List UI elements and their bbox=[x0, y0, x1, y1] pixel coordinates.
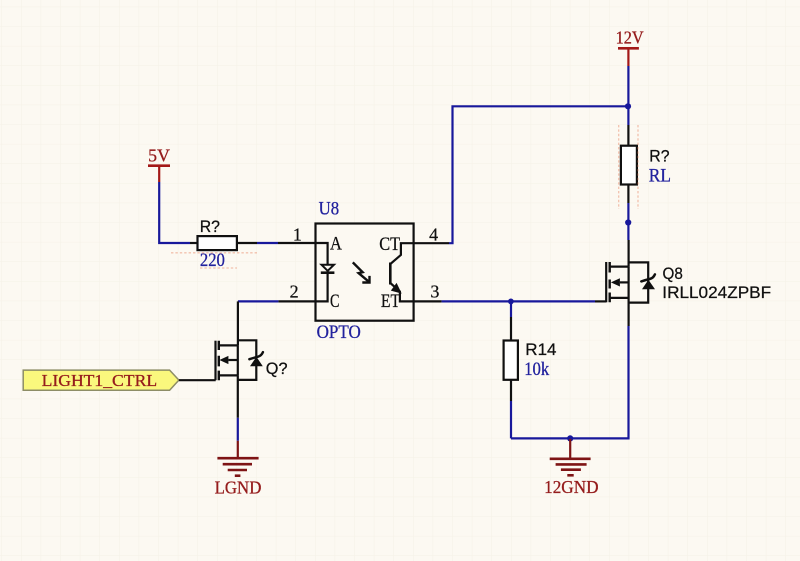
opto light arrow bbox=[353, 262, 370, 282]
compile squiggle under R220 bbox=[171, 252, 259, 254]
svg-text:R14: R14 bbox=[525, 340, 556, 359]
junction below RL bbox=[625, 219, 631, 225]
power port 5V bbox=[148, 145, 170, 182]
body arrow bbox=[611, 278, 620, 286]
wire R14 bottom bbox=[510, 401, 512, 438]
svg-text:IRLL024ZPBF: IRLL024ZPBF bbox=[662, 283, 771, 302]
wire 12V down bbox=[627, 66, 629, 125]
ground 12GND bbox=[544, 439, 599, 497]
Q? source wire bbox=[237, 375, 239, 417]
junction R14 top bbox=[508, 299, 514, 305]
wire Q? drain vertical bbox=[237, 301, 239, 345]
body diode triangle bbox=[250, 357, 263, 367]
opto pin 2 bbox=[278, 300, 315, 302]
power port 12V bbox=[616, 28, 644, 67]
body arrow bbox=[219, 356, 228, 364]
wire R14 top bbox=[510, 301, 512, 317]
net label LIGHT1_CTRL bbox=[23, 370, 179, 390]
wire 5V to R220 bbox=[159, 182, 190, 243]
svg-text:OPTO: OPTO bbox=[317, 323, 361, 343]
svg-text:2: 2 bbox=[290, 282, 299, 302]
wire bottom rail to Q8 source bbox=[511, 326, 629, 438]
compile squiggle right of RL bbox=[637, 125, 639, 209]
wire opto pin2 to Q? drain bbox=[238, 300, 279, 302]
svg-text:R?: R? bbox=[649, 147, 669, 166]
wire R220 right pin bbox=[237, 242, 257, 244]
Q8 gate pin bbox=[595, 300, 606, 302]
svg-text:U8: U8 bbox=[319, 199, 340, 219]
resistor R? RL bbox=[621, 146, 671, 187]
junction 12GND bbox=[567, 435, 573, 441]
wire R220 to opto pin1 bbox=[257, 242, 278, 244]
svg-text:CT: CT bbox=[379, 235, 400, 255]
ground LGND bbox=[215, 441, 262, 498]
svg-text:5V: 5V bbox=[148, 145, 170, 165]
R14 bottom pin bbox=[510, 380, 512, 401]
drain lead bbox=[219, 344, 238, 346]
svg-text:4: 4 bbox=[429, 224, 438, 244]
compile squiggle left of RL bbox=[618, 125, 620, 209]
internal vertical bbox=[237, 345, 239, 375]
body diode triangle bbox=[642, 280, 655, 290]
wire R220 left pin bbox=[190, 242, 198, 244]
transistor Q? bbox=[216, 340, 288, 380]
R14 top pin bbox=[510, 317, 512, 341]
svg-text:ET: ET bbox=[381, 292, 400, 312]
gate bar bbox=[214, 341, 216, 381]
svg-text:A: A bbox=[330, 234, 342, 254]
resistor R? 220 bbox=[198, 217, 237, 271]
wire RL to Q8 drain bbox=[627, 203, 629, 240]
svg-text:LGND: LGND bbox=[215, 478, 262, 498]
svg-text:3: 3 bbox=[430, 282, 439, 302]
svg-text:12V: 12V bbox=[616, 28, 644, 48]
svg-text:10k: 10k bbox=[524, 360, 550, 380]
source lead bbox=[219, 374, 238, 376]
internal vertical drain-to-source bbox=[627, 267, 629, 298]
svg-text:220: 220 bbox=[200, 251, 225, 271]
Q8 drain pin bbox=[627, 240, 629, 267]
opto LED branch bbox=[316, 234, 343, 312]
opto pin 1 bbox=[278, 242, 316, 244]
channel segments bbox=[609, 262, 611, 302]
RL top pin bbox=[627, 125, 629, 146]
opto pin 3 bbox=[414, 300, 442, 302]
svg-text:Q8: Q8 bbox=[663, 264, 683, 283]
wire opto pin4 up to 12V rail bbox=[449, 106, 628, 243]
body diode branch bbox=[629, 262, 649, 302]
svg-text:C: C bbox=[330, 292, 340, 312]
body diode branch bbox=[238, 340, 256, 380]
compile squiggle under 220 value bbox=[200, 267, 237, 269]
svg-text:12GND: 12GND bbox=[544, 477, 599, 497]
wire opto pin3 to Q8 gate / R14 bbox=[442, 300, 595, 302]
svg-text:1: 1 bbox=[293, 224, 302, 244]
junction 12V rail bbox=[625, 103, 631, 109]
zener cathode curve bbox=[641, 274, 655, 281]
wire flag to Q? gate bbox=[179, 379, 216, 381]
RL bottom pin bbox=[627, 185, 629, 204]
svg-text:LIGHT1_CTRL: LIGHT1_CTRL bbox=[42, 371, 158, 390]
drain lead bbox=[610, 266, 629, 268]
source lead bbox=[610, 297, 629, 299]
opto U8 body bbox=[316, 199, 414, 343]
svg-text:RL: RL bbox=[649, 167, 671, 187]
gate bar bbox=[605, 262, 607, 302]
resistor R14 bbox=[504, 340, 557, 380]
opto pin 4 bbox=[414, 242, 449, 244]
channel segments bbox=[218, 341, 220, 381]
Q8 source pin bbox=[627, 298, 629, 326]
svg-text:R?: R? bbox=[200, 217, 220, 236]
zener cathode curve bbox=[249, 352, 263, 359]
svg-text:Q?: Q? bbox=[266, 359, 288, 378]
opto phototransistor bbox=[379, 235, 413, 312]
